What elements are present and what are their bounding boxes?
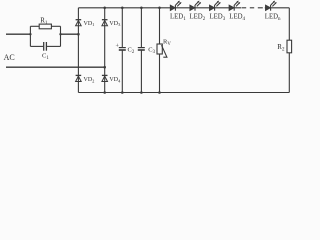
LED LED3 xyxy=(210,1,221,11)
node bottom rail C2 xyxy=(121,91,124,94)
resistor R2 xyxy=(287,40,292,53)
LED LEDn xyxy=(266,1,277,11)
svg-text:C2: C2 xyxy=(128,47,135,56)
svg-text:LED3: LED3 xyxy=(210,14,226,22)
wire dashed rail section xyxy=(242,7,263,9)
capacitor C3 xyxy=(138,48,145,50)
wire AC line 2 (bottom input) xyxy=(6,66,105,68)
node AC1-bridge junction xyxy=(77,33,80,36)
wire RV column xyxy=(159,8,161,93)
svg-text:VD1: VD1 xyxy=(84,21,95,27)
varistor RV xyxy=(157,44,167,57)
capacitor C1 xyxy=(30,42,60,51)
capacitor C2 (electrolytic) xyxy=(119,48,126,50)
wire bridge column 2 xyxy=(104,8,106,93)
svg-text:LED4: LED4 xyxy=(229,14,245,22)
svg-text:VD4: VD4 xyxy=(109,77,121,83)
node AC2-bridge junction xyxy=(103,66,106,69)
diode VD4 xyxy=(102,75,108,81)
wire top DC+ rail xyxy=(78,7,289,9)
diode VD1 xyxy=(76,20,82,26)
svg-text:VD3: VD3 xyxy=(109,21,121,27)
svg-text:LED1: LED1 xyxy=(170,14,186,22)
node top rail col2 xyxy=(103,7,106,10)
node AC1-block right junction xyxy=(59,33,61,35)
wire bottom DC- rail xyxy=(78,92,289,94)
diode VD3 xyxy=(102,20,108,26)
LED LED2 xyxy=(190,1,201,11)
wire C2 column xyxy=(121,8,123,93)
svg-text:RV: RV xyxy=(163,39,171,48)
wire bridge column 1 xyxy=(77,8,79,93)
LED LED4 xyxy=(229,1,240,11)
wire R1C1 block right bar xyxy=(60,26,62,46)
svg-text:LED2: LED2 xyxy=(190,14,206,22)
wire right edge vertical xyxy=(288,8,290,93)
svg-text:C3: C3 xyxy=(148,47,155,56)
svg-text:C1: C1 xyxy=(42,52,49,61)
svg-text:VD2: VD2 xyxy=(84,77,95,83)
svg-text:+: + xyxy=(116,43,120,49)
svg-text:LEDn: LEDn xyxy=(265,14,281,22)
wire R1C1 block left bar xyxy=(29,26,31,46)
svg-text:AC: AC xyxy=(4,53,15,62)
node top rail C2 xyxy=(121,7,124,10)
wire C3 column xyxy=(140,8,142,93)
node bottom rail col2 xyxy=(103,91,106,94)
node bottom rail C3 xyxy=(140,91,143,94)
diode VD2 xyxy=(76,75,82,81)
svg-text:R2: R2 xyxy=(277,43,285,53)
LED LED1 xyxy=(170,1,181,11)
node top rail C3 xyxy=(140,7,143,10)
node top rail RV xyxy=(158,7,161,10)
node AC1-block left junction xyxy=(29,33,31,35)
node bottom rail RV xyxy=(158,91,161,94)
resistor R1 xyxy=(30,24,60,29)
wire AC line 1 (top input) xyxy=(6,33,78,35)
